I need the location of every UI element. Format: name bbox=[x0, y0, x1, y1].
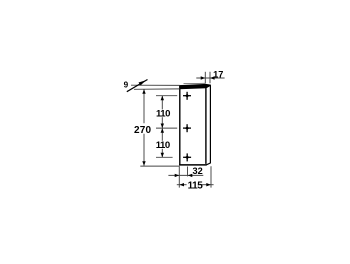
dim 270 line bbox=[142, 89, 145, 166]
thickness ext line upper bbox=[131, 84, 180, 86]
ext line hole center below bbox=[187, 167, 189, 177]
hole H1 center mark bbox=[183, 92, 191, 100]
svg-text:17: 17 bbox=[213, 69, 223, 79]
svg-text:115: 115 bbox=[188, 181, 204, 192]
svg-text:270: 270 bbox=[134, 125, 152, 136]
plate bottom-right chamfer bbox=[206, 163, 210, 165]
hole H3 center mark bbox=[183, 153, 191, 161]
hole ext line h2 bbox=[156, 127, 177, 129]
hole ext line h3 bbox=[156, 156, 173, 158]
hole ext line h1 bbox=[156, 95, 177, 97]
dim 110 upper bbox=[161, 96, 164, 128]
dim 17 ext line left bbox=[204, 72, 206, 83]
svg-text:110: 110 bbox=[156, 140, 170, 151]
dim 17 ext line right bbox=[209, 72, 211, 83]
hole H2 center mark bbox=[183, 124, 191, 132]
dim 32 line and arrows bbox=[168, 174, 203, 177]
plate back right edge bbox=[209, 85, 211, 163]
dim 110 lower bbox=[161, 128, 164, 157]
svg-text:9: 9 bbox=[124, 81, 129, 90]
svg-text:32: 32 bbox=[192, 166, 202, 176]
svg-text:110: 110 bbox=[156, 108, 170, 119]
ext line plate left below bbox=[178, 166, 180, 187]
270 bottom ext line bbox=[140, 165, 179, 167]
dim 115 line and arrows bbox=[177, 183, 214, 186]
ext line plate right below bbox=[210, 166, 212, 187]
plate top face (black band) bbox=[179, 84, 211, 89]
plate back top hairline bbox=[184, 82, 206, 84]
dim 17 line and arrows bbox=[196, 76, 224, 79]
plate bottom edge bbox=[179, 164, 207, 166]
thickness ext line lower / 270 top ext bbox=[134, 88, 180, 90]
plate front face outline bbox=[179, 85, 181, 165]
leader for 9 bbox=[127, 80, 148, 92]
